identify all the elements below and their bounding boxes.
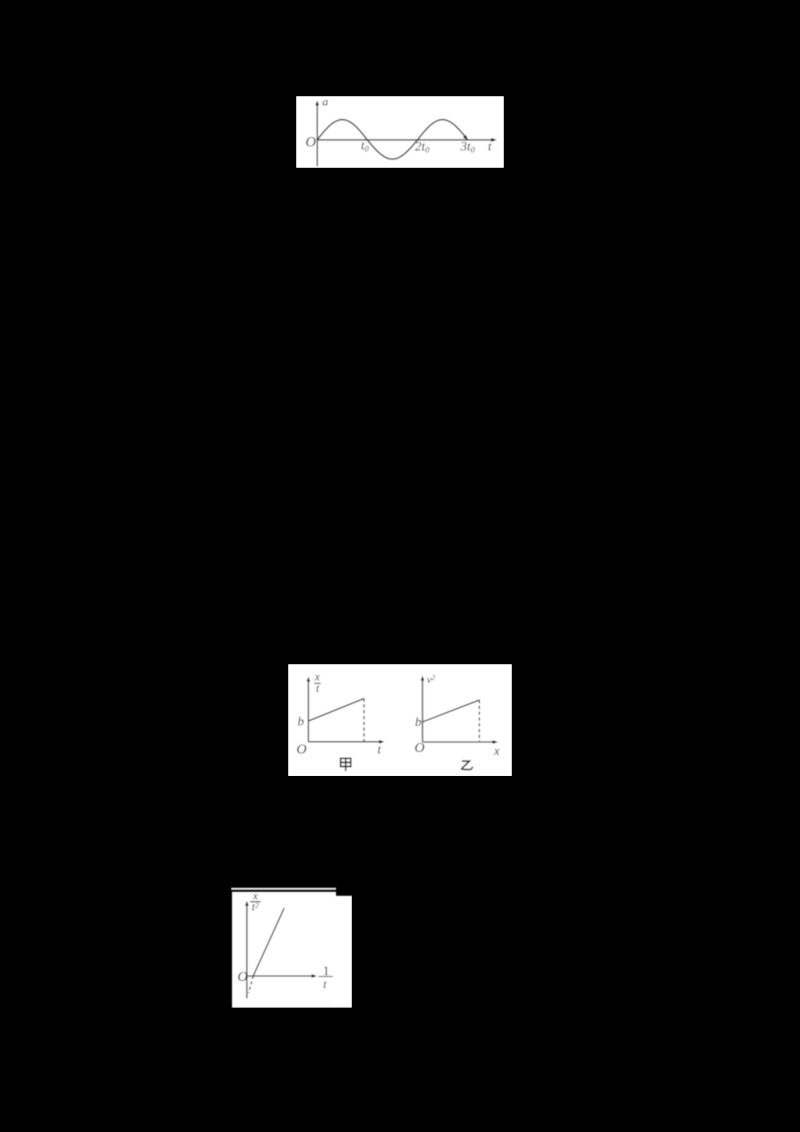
svg-text:O: O xyxy=(306,134,317,150)
figure panel 1: a-t sine graph xyxy=(296,96,504,168)
fraction label x/t xyxy=(314,671,321,695)
svg-text:t: t xyxy=(378,742,382,756)
caption jia (CJK) drawn as strokes xyxy=(341,758,351,771)
y-axis arrowhead xyxy=(245,901,249,906)
svg-text:b: b xyxy=(415,714,422,729)
x-axis (t axis) xyxy=(317,138,493,140)
sloped line (right) xyxy=(423,700,480,722)
right graph y-axis (v^2 axis) xyxy=(422,678,424,742)
white background of panel 3 (right part, lower top) xyxy=(335,896,352,1008)
steep solid line xyxy=(253,908,284,976)
left x-axis (t axis) xyxy=(308,740,381,742)
x-axis (1/t axis) xyxy=(247,975,314,977)
svg-text:O: O xyxy=(415,741,425,756)
white background of panel 3 (left part) xyxy=(232,892,336,1008)
sine curve a(t) xyxy=(317,119,467,159)
dashed drop line (right) xyxy=(478,700,480,742)
x-axis arrowhead xyxy=(491,137,497,141)
svg-text:a: a xyxy=(322,96,328,109)
figure panel 3: x/t^2 vs 1/t graph xyxy=(231,887,352,1008)
left y-axis arrowhead xyxy=(307,676,311,681)
y-axis (a axis) xyxy=(316,103,318,166)
right x-axis (x axis) xyxy=(423,741,495,743)
right x-axis arrowhead xyxy=(493,740,498,744)
dashed continuation below axis xyxy=(249,976,254,993)
svg-text:b: b xyxy=(298,713,305,728)
figure panel 2: two graphs jia and yi xyxy=(288,664,512,777)
svg-text:x: x xyxy=(493,744,500,758)
svg-text:x: x xyxy=(314,671,321,683)
y-axis arrowhead xyxy=(315,100,319,105)
left graph y-axis (x/t axis) xyxy=(307,679,309,741)
svg-text:O: O xyxy=(238,970,248,985)
thin white rule above panel 3 xyxy=(231,888,336,890)
curve end arrowhead at 3t0 xyxy=(463,134,468,139)
white background of panel 1 xyxy=(296,96,504,168)
dashed drop line (left) xyxy=(363,698,365,741)
x-axis arrowhead xyxy=(312,974,317,978)
y-axis (x/t^2 axis) xyxy=(246,904,248,999)
fraction label x/t^2 xyxy=(250,890,261,913)
svg-text:t: t xyxy=(488,139,492,153)
svg-text:O: O xyxy=(297,742,307,757)
caption yi (CJK) drawn as strokes xyxy=(462,761,473,770)
fraction label 1/t xyxy=(319,964,333,991)
white background of panel 2 xyxy=(288,664,512,777)
sloped line (left) xyxy=(308,698,364,721)
left x-axis arrowhead xyxy=(379,739,384,743)
right y-axis arrowhead xyxy=(421,675,425,680)
